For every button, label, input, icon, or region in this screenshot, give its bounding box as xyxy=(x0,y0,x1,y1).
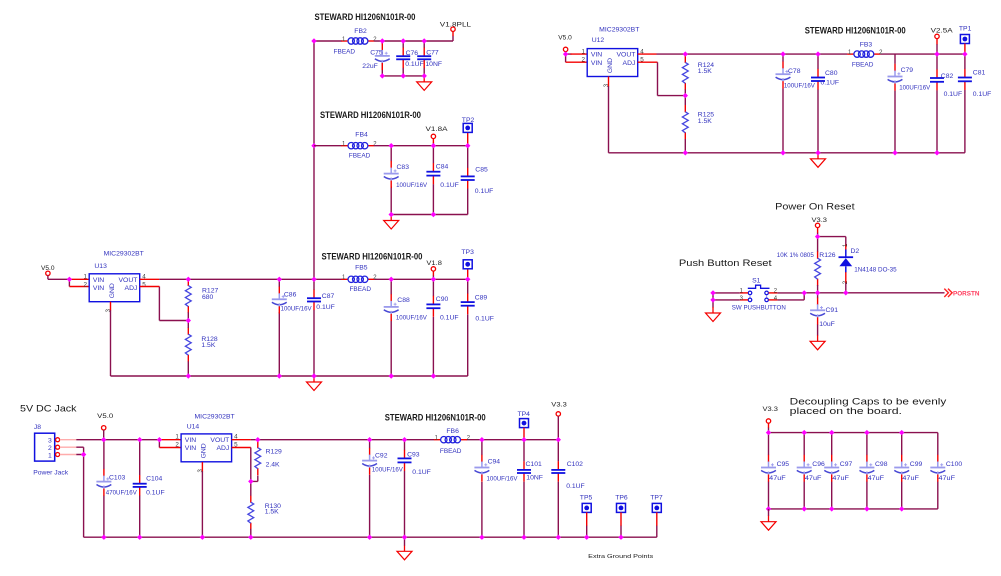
svg-text:V3.3: V3.3 xyxy=(763,406,779,413)
wire U13 pin1 stub xyxy=(69,278,89,280)
svg-text:47uF: 47uF xyxy=(832,475,849,482)
capacitor C89 xyxy=(461,294,494,323)
junction xyxy=(618,535,623,540)
resistor R125 xyxy=(682,105,714,139)
svg-text:5: 5 xyxy=(142,282,146,289)
ground xyxy=(761,516,776,531)
wire V1.8PLL red stub xyxy=(452,32,454,36)
wire V1.8A red stub xyxy=(432,139,434,143)
svg-text:10NF: 10NF xyxy=(526,475,543,482)
svg-text:VOUT: VOUT xyxy=(210,437,229,444)
capacitor C104 xyxy=(133,475,165,496)
svg-text:FBEAD: FBEAD xyxy=(852,62,874,69)
svg-text:C96: C96 xyxy=(812,461,825,468)
svg-text:ADJ: ADJ xyxy=(125,285,138,292)
junction xyxy=(389,143,394,148)
svg-text:10NF: 10NF xyxy=(425,61,442,68)
svg-text:2: 2 xyxy=(373,275,377,281)
capacitor C93 xyxy=(398,450,431,476)
junction xyxy=(431,277,436,282)
svg-text:J8: J8 xyxy=(34,424,41,431)
wire U12 GND pin xyxy=(608,77,610,87)
svg-text:C83: C83 xyxy=(397,164,410,171)
svg-text:PORSTN: PORSTN xyxy=(953,290,980,297)
junction xyxy=(431,373,436,378)
wire J8 pin3 to rail xyxy=(76,439,103,441)
wire C89 stubs xyxy=(467,279,469,376)
svg-text:STEWARD HI1206N101R-00: STEWARD HI1206N101R-00 xyxy=(322,251,423,261)
wire C93 stubs xyxy=(404,440,406,538)
svg-text:V2.5A: V2.5A xyxy=(931,28,954,35)
wire V2.5A stub xyxy=(936,39,938,45)
svg-text:TP5: TP5 xyxy=(580,495,593,502)
junction xyxy=(389,212,394,217)
capacitor C81 xyxy=(958,69,991,98)
svg-text:0.1UF: 0.1UF xyxy=(475,315,494,322)
svg-text:MIC29302BT: MIC29302BT xyxy=(195,413,235,420)
wire U14 ADJ stub xyxy=(232,447,251,449)
svg-text:U14: U14 xyxy=(187,424,200,431)
svg-text:TP3: TP3 xyxy=(461,249,474,256)
svg-text:TP2: TP2 xyxy=(462,117,475,124)
svg-text:C76: C76 xyxy=(406,50,419,57)
svg-text:C104: C104 xyxy=(146,476,162,483)
voltage regulator U14 MIC29302BT xyxy=(175,413,238,472)
wire U12 pin1 stub xyxy=(571,53,588,55)
svg-text:0.1UF: 0.1UF xyxy=(405,61,424,68)
wire C99 stubs xyxy=(901,433,903,509)
svg-text:100UF/16V: 100UF/16V xyxy=(784,83,815,90)
junction xyxy=(584,535,589,540)
wire FB4 in xyxy=(314,145,342,147)
wire net V1.8PLL xyxy=(374,36,453,41)
junction xyxy=(186,318,191,323)
svg-text:GND: GND xyxy=(607,58,614,73)
power symbol V3.3 xyxy=(763,406,779,423)
svg-text:0.1UF: 0.1UF xyxy=(440,182,459,189)
svg-text:C98: C98 xyxy=(875,461,888,468)
junction xyxy=(277,373,282,378)
svg-text:C88: C88 xyxy=(397,297,410,304)
power symbol V2.5A xyxy=(931,28,954,39)
junction xyxy=(402,535,407,540)
svg-text:FB2: FB2 xyxy=(354,28,367,35)
capacitor C83 xyxy=(384,161,428,189)
wire R130 link xyxy=(250,481,252,537)
svg-text:C85: C85 xyxy=(475,166,488,173)
power symbol V5.0 xyxy=(97,413,113,430)
junction xyxy=(311,143,316,148)
wire U12 ADJ net xyxy=(658,62,686,95)
junction xyxy=(556,437,561,442)
ferrite bead FB5 xyxy=(341,265,377,293)
svg-text:47uF: 47uF xyxy=(805,475,822,482)
svg-text:47uF: 47uF xyxy=(769,475,786,482)
junction xyxy=(389,277,394,282)
test point TP1 xyxy=(959,26,972,44)
svg-text:TP7: TP7 xyxy=(650,495,663,502)
wire C92 stubs xyxy=(369,440,371,538)
test point TP5 xyxy=(580,495,593,513)
junction xyxy=(899,506,904,511)
svg-text:V3.3: V3.3 xyxy=(812,217,828,224)
svg-text:100UF/16V: 100UF/16V xyxy=(396,182,427,189)
wire C86 stubs xyxy=(278,279,280,376)
svg-text:Push Button Reset: Push Button Reset xyxy=(679,257,772,268)
junction xyxy=(465,143,470,148)
capacitor C78 xyxy=(776,62,816,90)
capacitor C76 xyxy=(396,48,424,68)
junction xyxy=(431,212,436,217)
wire gnd drop xyxy=(404,537,406,545)
wire C84 stubs xyxy=(432,146,434,215)
ground xyxy=(811,153,826,168)
svg-text:1: 1 xyxy=(435,436,439,442)
svg-text:C79: C79 xyxy=(901,67,914,74)
wire V5.0 jack stub xyxy=(103,430,105,440)
junction xyxy=(422,38,427,43)
svg-text:placed on the board.: placed on the board. xyxy=(790,405,902,416)
wire U12 ADJ stub xyxy=(638,61,658,63)
junction xyxy=(815,51,820,56)
junction xyxy=(311,38,316,43)
test point TP6 xyxy=(615,495,628,513)
svg-text:STEWARD HI1206N101R-00: STEWARD HI1206N101R-00 xyxy=(385,412,486,422)
svg-text:1.5K: 1.5K xyxy=(265,508,279,515)
capacitor C88 xyxy=(384,294,428,321)
svg-text:100UF/16V: 100UF/16V xyxy=(899,84,930,91)
wire C101 stubs xyxy=(523,440,525,538)
wire dec bottom rail xyxy=(769,508,938,510)
test point TP4 xyxy=(518,411,531,428)
svg-text:0.1UF: 0.1UF xyxy=(440,314,459,321)
junction xyxy=(864,506,869,511)
svg-text:47uF: 47uF xyxy=(939,475,956,482)
wire U14 VOUT stub xyxy=(232,439,251,441)
svg-text:C93: C93 xyxy=(407,452,420,459)
capacitor C103 xyxy=(96,469,137,497)
svg-text:VOUT: VOUT xyxy=(617,52,636,59)
resistor R124 xyxy=(682,56,714,90)
junction xyxy=(367,535,372,540)
wire V1.8 red stub xyxy=(432,271,434,275)
svg-text:VIN: VIN xyxy=(591,52,602,59)
junction xyxy=(802,506,807,511)
ground xyxy=(417,76,432,91)
wire gnd rail 5 xyxy=(84,536,657,538)
junction xyxy=(389,373,394,378)
wire TP1 stub xyxy=(964,44,966,55)
connector J8 Power Jack xyxy=(33,424,76,477)
wire gnd rail xyxy=(382,75,424,77)
svg-text:3: 3 xyxy=(48,437,52,444)
wire C103 stubs xyxy=(103,440,105,538)
wire S1 left xyxy=(713,293,740,308)
svg-text:C80: C80 xyxy=(825,70,838,77)
svg-text:VIN: VIN xyxy=(185,437,196,444)
test point TP3 xyxy=(461,249,474,269)
svg-text:1: 1 xyxy=(848,50,852,56)
svg-text:FB6: FB6 xyxy=(446,428,459,435)
svg-text:TP1: TP1 xyxy=(959,26,972,33)
junction xyxy=(277,277,282,282)
junction xyxy=(311,277,316,282)
resistor R126 xyxy=(815,251,836,285)
power symbol V5.0 xyxy=(558,34,572,51)
capacitor C97 xyxy=(824,455,852,482)
wire V5OUT bus xyxy=(314,41,342,279)
svg-text:FBEAD: FBEAD xyxy=(350,286,372,293)
svg-text:C87: C87 xyxy=(322,293,335,300)
wire C104 stubs xyxy=(139,440,141,538)
wire TP4 stub xyxy=(523,428,525,440)
wire U12 VOUT stub xyxy=(638,53,657,55)
capacitor C90 xyxy=(426,296,458,322)
junction xyxy=(137,535,142,540)
svg-text:Extra Ground Points: Extra Ground Points xyxy=(588,554,653,560)
junction xyxy=(829,506,834,511)
wire U13 pin2 stub xyxy=(69,286,89,288)
svg-text:U13: U13 xyxy=(94,263,107,270)
junction xyxy=(380,38,385,43)
svg-text:100UF/16V: 100UF/16V xyxy=(396,315,427,322)
svg-text:GND: GND xyxy=(109,283,116,298)
wire gnd rail 4 xyxy=(609,152,965,154)
svg-text:VIN: VIN xyxy=(93,285,104,292)
off-page connector PORSTN xyxy=(944,289,979,298)
junction xyxy=(843,290,848,295)
junction xyxy=(892,150,897,155)
svg-text:V5.0: V5.0 xyxy=(558,34,572,41)
wire C97 stubs xyxy=(831,433,833,509)
junction xyxy=(255,437,260,442)
svg-text:STEWARD HI1206N101R-00: STEWARD HI1206N101R-00 xyxy=(315,12,416,22)
svg-text:1: 1 xyxy=(175,434,179,441)
junction xyxy=(899,430,904,435)
wire dec gnd drop xyxy=(768,509,770,516)
ground xyxy=(307,376,322,391)
svg-text:FBEAD: FBEAD xyxy=(334,49,356,56)
svg-text:10uF: 10uF xyxy=(819,321,835,328)
junction xyxy=(521,437,526,442)
power symbol V1.8 xyxy=(426,260,442,271)
svg-text:TP6: TP6 xyxy=(615,495,628,502)
junction xyxy=(465,277,470,282)
capacitor C99 xyxy=(894,455,922,482)
svg-text:C91: C91 xyxy=(826,307,839,314)
svg-text:1: 1 xyxy=(83,274,87,281)
svg-text:2: 2 xyxy=(373,37,377,43)
wire C76 stubs xyxy=(402,41,404,76)
svg-text:C100: C100 xyxy=(946,461,962,468)
wire U13 VOUT stub xyxy=(140,278,160,280)
svg-text:V3.3: V3.3 xyxy=(551,402,567,409)
wire R124-R125 link xyxy=(684,89,686,152)
svg-text:2: 2 xyxy=(879,50,883,56)
capacitor C80 xyxy=(811,69,839,90)
junction xyxy=(934,51,939,56)
resistor R127 xyxy=(185,279,218,313)
svg-text:ADJ: ADJ xyxy=(623,60,636,67)
junction xyxy=(200,535,205,540)
wire D2 bottom xyxy=(845,283,847,293)
junction xyxy=(248,479,253,484)
junction xyxy=(864,430,869,435)
capacitor C84 xyxy=(426,163,458,189)
junction xyxy=(766,506,771,511)
svg-text:TP4: TP4 xyxy=(518,411,531,418)
svg-text:5V DC Jack: 5V DC Jack xyxy=(20,403,77,414)
svg-text:2: 2 xyxy=(48,445,52,452)
svg-text:STEWARD HI1206N101R-00: STEWARD HI1206N101R-00 xyxy=(805,25,906,35)
junction xyxy=(563,51,568,56)
junction xyxy=(710,297,715,302)
svg-text:2: 2 xyxy=(175,442,179,449)
svg-text:MIC29302BT: MIC29302BT xyxy=(599,27,639,34)
wire R127-R128 link xyxy=(187,312,189,376)
test point TP7 xyxy=(650,495,663,513)
svg-text:100UF/16V: 100UF/16V xyxy=(281,306,312,313)
junction xyxy=(556,535,561,540)
wire C81 stubs xyxy=(964,54,966,153)
svg-text:0.1UF: 0.1UF xyxy=(973,91,992,98)
voltage regulator U13 MIC29302BT xyxy=(83,250,146,312)
svg-text:0.1UF: 0.1UF xyxy=(566,483,585,490)
svg-text:C101: C101 xyxy=(526,461,542,468)
capacitor C75 xyxy=(362,43,390,70)
junction xyxy=(802,430,807,435)
svg-text:ADJ: ADJ xyxy=(216,445,229,452)
ground xyxy=(706,307,721,322)
wire C100 stubs xyxy=(937,433,939,509)
power symbol V5.0 xyxy=(41,265,55,275)
junction xyxy=(479,437,484,442)
svg-text:1.5K: 1.5K xyxy=(201,342,215,349)
power symbol V1.8PLL xyxy=(440,22,471,32)
junction xyxy=(380,73,385,78)
capacitor C101 xyxy=(517,461,543,482)
svg-text:0.1UF: 0.1UF xyxy=(316,304,335,311)
ferrite bead FB6 xyxy=(434,428,471,455)
svg-text:S1: S1 xyxy=(752,278,761,285)
junction xyxy=(431,143,436,148)
svg-text:1: 1 xyxy=(48,452,52,459)
wire dec top rail xyxy=(769,432,938,434)
junction xyxy=(766,430,771,435)
wire C91 stubs xyxy=(817,293,819,336)
test point TP2 xyxy=(462,117,475,132)
wire TP3 stub xyxy=(467,269,469,279)
push button switch S1 SW PUSHBUTTON xyxy=(732,278,786,312)
wire TP6 stub xyxy=(620,512,622,526)
svg-text:SW PUSHBUTTON: SW PUSHBUTTON xyxy=(732,305,786,312)
junction xyxy=(157,437,162,442)
svg-text:U12: U12 xyxy=(592,37,605,44)
capacitor C92 xyxy=(362,448,403,475)
voltage regulator U12 MIC29302BT xyxy=(581,27,644,87)
wire U14 ADJ net xyxy=(251,448,258,482)
wire VOUT rail xyxy=(159,278,468,280)
junction xyxy=(401,73,406,78)
wire V2.5 rail xyxy=(657,53,965,55)
capacitor C79 xyxy=(888,64,931,92)
svg-text:MIC29302BT: MIC29302BT xyxy=(104,250,144,257)
svg-text:V5.0: V5.0 xyxy=(97,413,113,420)
junction xyxy=(683,51,688,56)
power symbol V3.3 xyxy=(812,217,828,228)
resistor R128 xyxy=(185,327,217,361)
svg-text:Power On Reset: Power On Reset xyxy=(775,201,855,212)
wire R126 bottom xyxy=(817,285,819,293)
svg-text:1.5K: 1.5K xyxy=(698,118,712,125)
junction xyxy=(186,373,191,378)
svg-text:D2: D2 xyxy=(851,248,860,255)
svg-text:470UF/16V: 470UF/16V xyxy=(106,490,137,497)
capacitor C100 xyxy=(930,455,962,482)
junction xyxy=(422,73,427,78)
capacitor C91 xyxy=(810,298,838,328)
svg-text:0.1UF: 0.1UF xyxy=(146,490,165,497)
wire V5.0 to U12 xyxy=(566,52,572,63)
wire C96 stubs xyxy=(803,433,805,509)
junction xyxy=(401,38,406,43)
power symbol V1.8A xyxy=(426,126,449,138)
svg-text:C94: C94 xyxy=(488,459,501,466)
svg-text:1: 1 xyxy=(342,141,346,147)
junction xyxy=(67,277,72,282)
svg-text:2: 2 xyxy=(581,56,585,63)
svg-text:FB3: FB3 xyxy=(860,41,873,48)
svg-text:C97: C97 xyxy=(840,461,853,468)
wire TP7 stub xyxy=(656,512,658,526)
junction xyxy=(815,150,820,155)
svg-text:C82: C82 xyxy=(941,73,954,80)
resistor R129 xyxy=(255,441,282,475)
svg-text:V1.8: V1.8 xyxy=(426,260,442,267)
ground xyxy=(397,545,412,560)
junction xyxy=(683,150,688,155)
svg-text:R126: R126 xyxy=(819,252,835,259)
wire net V1.8A xyxy=(374,143,468,146)
junction xyxy=(248,535,253,540)
wire J8 pins 1-2 xyxy=(76,447,83,537)
wire C98 stubs xyxy=(866,433,868,509)
wire C88 stubs xyxy=(390,279,392,376)
wire V5.0 to U13 xyxy=(48,275,70,286)
capacitor C96 xyxy=(797,455,825,482)
wire U14 pin2 stub xyxy=(159,447,181,449)
svg-text:1: 1 xyxy=(342,275,346,281)
wire C78 stubs xyxy=(782,54,784,153)
svg-text:2.4K: 2.4K xyxy=(266,462,280,469)
svg-text:47uF: 47uF xyxy=(902,475,919,482)
svg-text:C75: C75 xyxy=(370,49,383,56)
svg-text:C78: C78 xyxy=(788,68,801,75)
svg-text:C84: C84 xyxy=(436,164,449,171)
wire U14 GND pin xyxy=(201,462,203,471)
wire C83 stubs xyxy=(390,146,392,215)
svg-text:10K 1% 0805: 10K 1% 0805 xyxy=(777,252,814,259)
junction xyxy=(137,437,142,442)
svg-text:1.5K: 1.5K xyxy=(698,68,712,75)
junction xyxy=(710,290,715,295)
wire C85 stubs xyxy=(467,146,469,215)
junction xyxy=(101,437,106,442)
diode D2 1N4148 xyxy=(839,243,897,284)
svg-text:0.1UF: 0.1UF xyxy=(944,91,963,98)
svg-text:1: 1 xyxy=(581,48,585,55)
junction xyxy=(367,437,372,442)
